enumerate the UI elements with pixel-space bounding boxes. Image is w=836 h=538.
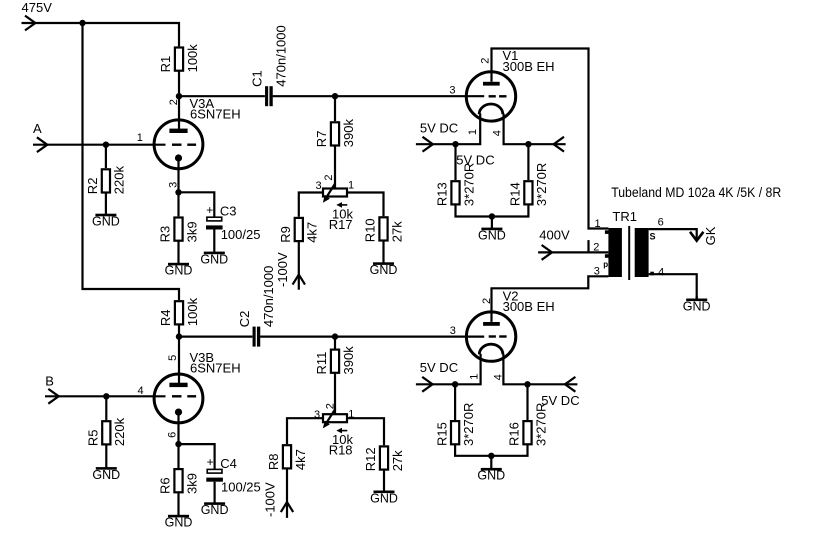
- svg-text:R6: R6: [158, 477, 173, 494]
- svg-text:GND: GND: [370, 491, 398, 505]
- wire TR1 pin4 to ground: [649, 274, 697, 298]
- supply arrow 5V DC V2 left: [422, 377, 432, 392]
- svg-text:470n/1000: 470n/1000: [261, 266, 276, 327]
- potentiometer R17 10k: [323, 183, 354, 232]
- wire left rail down to R4: [83, 23, 180, 300]
- resistor R7 390k: [314, 119, 356, 148]
- junction V3B cathode node: [175, 441, 181, 447]
- wire R11 to pot R18: [334, 373, 336, 414]
- ground V1 cathode ground: [478, 217, 506, 243]
- svg-text:R14: R14: [508, 182, 523, 206]
- svg-text:3: 3: [450, 325, 456, 337]
- svg-text:p: p: [603, 260, 608, 269]
- svg-text:100/25: 100/25: [221, 479, 261, 494]
- wire TR1 pin6 to GK: [649, 229, 697, 238]
- junction R1/C1 node: [176, 93, 182, 99]
- svg-text:-100V: -100V: [262, 482, 277, 517]
- resistor R15 3*270R: [434, 403, 476, 446]
- svg-text:4: 4: [491, 130, 503, 136]
- wire V3B cathode down: [177, 412, 179, 444]
- svg-text:R16: R16: [507, 422, 522, 446]
- transformer TR1: [603, 209, 655, 280]
- svg-text:4k7: 4k7: [305, 222, 320, 243]
- ground TR1 secondary ground: [683, 296, 711, 313]
- junction V1 left filament: [452, 141, 458, 147]
- svg-text:4k7: 4k7: [293, 449, 308, 470]
- svg-text:S: S: [650, 232, 656, 242]
- svg-text:3: 3: [316, 180, 322, 192]
- resistor R4 100k: [158, 297, 200, 326]
- svg-text:1: 1: [348, 180, 354, 192]
- svg-text:4: 4: [493, 374, 505, 380]
- svg-text:R3: R3: [158, 226, 173, 243]
- wire R17 pin3 to R9: [299, 193, 323, 217]
- svg-text:3*270R: 3*270R: [461, 403, 476, 446]
- svg-text:R13: R13: [435, 182, 450, 206]
- wire node to R3: [177, 192, 179, 216]
- wire junction to R16: [526, 384, 528, 420]
- svg-text:1: 1: [469, 374, 481, 380]
- supply arrow 400V: [542, 245, 552, 260]
- svg-text:B: B: [45, 373, 54, 388]
- svg-text:100/25: 100/25: [221, 227, 261, 242]
- svg-text:5V DC: 5V DC: [420, 360, 458, 375]
- triode V3A: [154, 96, 240, 169]
- resistor R5 220k: [86, 417, 128, 446]
- input arrow B: [48, 389, 58, 404]
- svg-text:GND: GND: [370, 263, 398, 277]
- svg-text:4: 4: [658, 267, 664, 279]
- ground R2 ground: [92, 193, 120, 229]
- junction V2 cathode ground node: [488, 453, 494, 459]
- junction A/R2 node: [103, 142, 109, 148]
- svg-text:6: 6: [658, 216, 664, 228]
- svg-text:R12: R12: [363, 447, 378, 471]
- wire node to R11: [334, 337, 336, 349]
- svg-text:GND: GND: [201, 503, 229, 517]
- supply arrow 5V DC V1 right: [554, 137, 564, 152]
- wire node to R7: [334, 96, 336, 121]
- svg-text:GND: GND: [478, 228, 506, 242]
- tube V2: [466, 288, 554, 361]
- svg-text:TR1: TR1: [612, 209, 637, 224]
- svg-text:R5: R5: [86, 429, 101, 446]
- ground R6 ground: [165, 493, 193, 530]
- junction C1/R7 node: [332, 93, 338, 99]
- svg-text:5: 5: [167, 355, 179, 361]
- svg-text:R17: R17: [329, 217, 353, 232]
- svg-text:GND: GND: [92, 215, 120, 229]
- svg-text:6SN7EH: 6SN7EH: [190, 361, 241, 376]
- resistor R2 220k: [85, 166, 127, 195]
- svg-text:R2: R2: [85, 178, 100, 195]
- svg-text:2: 2: [168, 99, 180, 105]
- svg-text:27k: 27k: [390, 450, 405, 471]
- svg-text:R10: R10: [363, 218, 378, 242]
- wire V1 filament left leg: [416, 114, 480, 145]
- junction 475V rail: [79, 20, 85, 26]
- supply arrow 5V DC V1 left: [423, 137, 433, 152]
- wire R13 R14 bottom: [456, 205, 529, 217]
- svg-text:R8: R8: [266, 453, 281, 470]
- wire node to C4: [179, 444, 215, 469]
- wire R17 pin1 to R10: [347, 193, 384, 217]
- wire R8 to -100V: [286, 469, 288, 518]
- wire B to V3B grid: [45, 395, 166, 397]
- wire junction to R15: [454, 384, 456, 420]
- wire R7 to pot R17: [334, 146, 336, 189]
- wire C1 to V1 grid: [273, 95, 485, 97]
- svg-text:R7: R7: [314, 131, 329, 148]
- svg-text:220k: 220k: [112, 417, 127, 446]
- svg-text:3*270R: 3*270R: [534, 163, 549, 206]
- resistor R12 27k: [363, 446, 405, 471]
- svg-text:A: A: [33, 121, 42, 136]
- svg-text:475V: 475V: [22, 0, 53, 15]
- svg-text:C1: C1: [249, 70, 264, 87]
- capacitor C3 100/25: [206, 203, 260, 242]
- resistor R3 3k9: [158, 218, 200, 243]
- wire node to R2: [105, 145, 107, 169]
- svg-text:6SN7EH: 6SN7EH: [190, 107, 241, 122]
- svg-text:GND: GND: [200, 252, 228, 266]
- capacitor C4 100/25: [206, 455, 260, 494]
- svg-text:2: 2: [479, 58, 491, 64]
- wire junction to R14: [527, 144, 529, 180]
- svg-text:R1: R1: [158, 56, 173, 73]
- svg-text:3*270R: 3*270R: [533, 403, 548, 446]
- svg-text:300B EH: 300B EH: [503, 299, 555, 314]
- svg-text:400V: 400V: [539, 228, 570, 243]
- wire R4 to V3B anode: [178, 325, 180, 383]
- wire node to R6: [177, 444, 179, 468]
- svg-text:100k: 100k: [185, 297, 200, 326]
- potentiometer R18 10k: [323, 409, 354, 458]
- wire junction to R13: [454, 144, 456, 180]
- capacitor C1 470n/1000: [249, 25, 288, 106]
- junction R4/C2 node: [176, 333, 182, 339]
- svg-text:R18: R18: [329, 443, 353, 458]
- junction V3A cathode node: [175, 189, 181, 195]
- svg-text:GND: GND: [165, 516, 193, 530]
- svg-text:2: 2: [324, 403, 336, 409]
- input arrow 475V: [25, 16, 35, 31]
- wire 400V to TR1 pin2: [538, 251, 608, 253]
- junction V2 right filament: [524, 381, 530, 387]
- svg-text:3: 3: [449, 85, 455, 97]
- svg-text:6: 6: [167, 432, 179, 438]
- svg-text:1: 1: [595, 218, 601, 230]
- svg-text:3k9: 3k9: [184, 221, 199, 242]
- svg-text:3k9: 3k9: [184, 473, 199, 494]
- ground V2 cathode ground: [477, 456, 505, 483]
- svg-text:3: 3: [314, 409, 320, 421]
- svg-text:27k: 27k: [389, 221, 404, 242]
- capacitor C2 470n/1000: [237, 266, 276, 347]
- svg-text:1: 1: [137, 132, 143, 144]
- junction V1 right filament: [525, 141, 531, 147]
- wire TR1 pin2 stub: [587, 240, 589, 252]
- resistor R9 4k7: [278, 218, 320, 243]
- svg-text:-100V: -100V: [275, 252, 290, 287]
- svg-text:4: 4: [138, 385, 144, 397]
- svg-text:GND: GND: [683, 299, 711, 313]
- ground C4 ground: [201, 482, 229, 517]
- svg-text:C4: C4: [220, 456, 237, 471]
- wire V2 filament left leg: [416, 354, 481, 384]
- wire node to C1: [179, 95, 265, 97]
- wire V1 filament right leg: [504, 114, 566, 145]
- svg-text:2: 2: [481, 298, 493, 304]
- ground R10 ground: [370, 241, 398, 277]
- wire C2 to V2 grid: [260, 336, 484, 338]
- svg-text:+: +: [206, 203, 213, 217]
- resistor R1 100k: [158, 44, 200, 73]
- svg-text:GND: GND: [165, 264, 193, 278]
- svg-text:R11: R11: [314, 352, 329, 375]
- input arrow A: [37, 137, 47, 152]
- svg-text:R15: R15: [434, 422, 449, 446]
- resistor R16 3*270R: [507, 403, 549, 446]
- resistor R14 3*270R: [508, 163, 550, 206]
- svg-text:R9: R9: [278, 226, 293, 243]
- svg-text:1: 1: [467, 129, 479, 135]
- wire A to V3A grid: [33, 144, 166, 146]
- wire R1 to V3A anode: [178, 71, 180, 129]
- svg-text:5V DC: 5V DC: [420, 121, 458, 136]
- svg-text:100k: 100k: [185, 44, 200, 73]
- supply arrow -100V lower: [281, 502, 293, 512]
- svg-text:Tubeland MD 102a 4K /5K / 8R: Tubeland MD 102a 4K /5K / 8R: [611, 185, 781, 200]
- tube V1: [466, 48, 554, 121]
- wire node to C3: [179, 192, 215, 217]
- output arrow GK: [690, 232, 703, 241]
- svg-text:390k: 390k: [341, 346, 356, 375]
- svg-text:2: 2: [323, 174, 335, 180]
- wire node to C2: [179, 336, 252, 338]
- resistor R6 3k9: [158, 469, 200, 494]
- junction B/R5 node: [103, 393, 109, 399]
- svg-text:470n/1000: 470n/1000: [273, 25, 288, 86]
- resistor R8 4k7: [266, 445, 308, 470]
- junction C2/R11 node: [332, 333, 338, 339]
- wire R9 to -100V: [298, 241, 300, 289]
- wire 475V rail to R1: [22, 23, 180, 46]
- svg-text:C2: C2: [237, 311, 252, 328]
- svg-text:390k: 390k: [341, 119, 356, 148]
- resistor R11 390k: [314, 346, 356, 375]
- resistor R13 3*270R: [435, 163, 477, 206]
- wire V1 anode to transformer: [492, 49, 609, 229]
- wire node to R5: [105, 396, 107, 420]
- wire R18 pin1 to R12: [347, 418, 384, 445]
- supply arrow 5V DC V2 right: [565, 377, 575, 392]
- svg-text:R4: R4: [158, 309, 173, 326]
- triode V3B: [154, 350, 240, 423]
- svg-text:GND: GND: [477, 469, 505, 483]
- svg-text:C3: C3: [220, 204, 237, 219]
- wire TR1 pin3 to V2 anode: [492, 276, 609, 322]
- svg-text:GK: GK: [703, 226, 718, 245]
- svg-text:300B EH: 300B EH: [503, 59, 555, 74]
- wire R18 pin3 to R8: [287, 418, 323, 444]
- junction V2 left filament: [452, 381, 458, 387]
- wire V3A cathode down: [177, 158, 179, 192]
- svg-text:3*270R: 3*270R: [461, 163, 476, 206]
- svg-text:GND: GND: [92, 468, 120, 482]
- ground R12 ground: [370, 470, 398, 506]
- junction V1 cathode ground node: [489, 213, 495, 219]
- ground R5 ground: [92, 445, 120, 482]
- resistor R10 27k: [363, 217, 405, 242]
- supply arrow -100V upper: [293, 275, 305, 285]
- wire V2 filament right leg: [503, 354, 577, 384]
- svg-text:220k: 220k: [112, 166, 127, 195]
- svg-text:+: +: [207, 455, 214, 469]
- wire R15 R16 bottom: [455, 445, 527, 456]
- ground R3 ground: [165, 241, 193, 278]
- ground C3 ground: [200, 230, 228, 267]
